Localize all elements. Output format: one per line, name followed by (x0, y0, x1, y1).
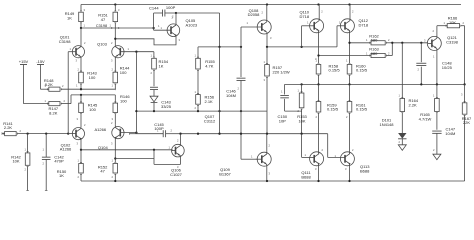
capacitor C148 (416, 43, 452, 85)
node bot4 (348, 180, 350, 182)
svg-text:Q103: Q103 (97, 41, 108, 46)
node out1 (300, 83, 302, 85)
node vas2 (153, 110, 155, 112)
svg-text:100P: 100P (166, 5, 176, 10)
resistor R151 (98, 5, 120, 39)
node Q110-em-tap (317, 54, 319, 56)
node Q102-R150 (80, 149, 82, 151)
resistor R158 (316, 59, 341, 85)
svg-text:Q121C3198: Q121C3198 (446, 35, 459, 44)
resistor R149 (65, 5, 86, 29)
transistor Q103 (97, 39, 136, 72)
resistor R165 (419, 84, 440, 129)
capacitor C147 (432, 127, 456, 155)
wire bottom -V rail (81, 180, 465, 182)
wire Q121 base line (392, 42, 428, 44)
wire Q109 base feed (241, 155, 257, 160)
node bias-col (218, 46, 220, 48)
node Q103-base (135, 51, 137, 53)
node out3 (348, 83, 350, 85)
power +15V (19, 59, 29, 103)
node bot2 (266, 180, 268, 182)
ground D101 (398, 145, 406, 151)
node C144-Q105 (175, 12, 177, 14)
resistor R161 (346, 84, 368, 152)
svg-text:C14333/25: C14333/25 (161, 100, 172, 109)
node rail-Q110 (317, 3, 319, 5)
transistor Q110 (300, 5, 324, 64)
transistor Q108 (241, 5, 272, 47)
diode D101 (379, 118, 406, 145)
node Q108-base-bias (240, 46, 242, 48)
resistor R152 (98, 159, 118, 182)
node mid3 (218, 133, 220, 135)
transistor Q104 (95, 121, 137, 162)
node out6 (436, 83, 438, 85)
node Q104-base (135, 131, 137, 133)
svg-text:Q109B1367: Q109B1367 (219, 167, 231, 176)
transistor Q109 (219, 134, 271, 181)
wire mid rail (181, 134, 345, 158)
node mid4 (240, 133, 242, 135)
wire Q102 collector line (81, 145, 173, 151)
node B (114, 38, 116, 40)
resistor R146 (112, 94, 131, 124)
node vas3 (197, 110, 199, 112)
resistor R143 (76, 68, 98, 90)
transistor Q101 (59, 28, 86, 72)
node out2 (317, 83, 319, 85)
resistor R164 (399, 84, 419, 133)
node rail-R151 (114, 3, 116, 5)
svg-text:R1412.2K: R1412.2K (3, 121, 13, 130)
power -15V (36, 59, 45, 89)
wire tail line (61, 88, 115, 90)
svg-text:C3198: C3198 (96, 24, 107, 28)
wire input riser (67, 52, 69, 134)
transistor Q112 (337, 5, 369, 64)
svg-text:Q108D2058: Q108D2058 (248, 8, 261, 17)
node mid2 (197, 133, 199, 135)
node input-R142 (26, 132, 28, 134)
node rail-Q112 (348, 3, 350, 5)
resistor R144 (112, 66, 131, 90)
node Q110-base (300, 46, 302, 48)
wire Q103 collector to Q105 emitter (115, 36, 176, 45)
node A (80, 27, 155, 29)
node input-C142 (45, 132, 47, 134)
input terminal (2, 132, 5, 135)
wire Q104 tap to Q106 emitter (115, 150, 180, 169)
node VAS-base (153, 149, 155, 151)
transistor Q102 (60, 123, 86, 152)
wire Q103 base tap to R154 (136, 52, 154, 58)
capacitor C145 (130, 122, 181, 137)
svg-text:Q113B688: Q113B688 (360, 164, 370, 173)
node input-base (67, 132, 69, 134)
wire top +V rail (81, 4, 461, 6)
capacitor C150 (278, 84, 302, 123)
resistor R162 (350, 33, 393, 45)
node out7 (463, 83, 465, 85)
svg-text:C146104M: C146104M (226, 89, 237, 98)
resistor R166 (437, 16, 465, 85)
svg-text:C145100P: C145100P (154, 122, 164, 131)
svg-text:Q102A1266: Q102A1266 (60, 142, 72, 151)
transistor Q113 (335, 148, 371, 181)
wire R164 column upper (401, 43, 403, 85)
wire R155 top link (198, 46, 241, 48)
transistor Q106 (169, 134, 185, 177)
node base-line2 (420, 42, 422, 44)
svg-text:R1478.2K: R1478.2K (49, 106, 59, 115)
wire collector bus C3198 (81, 24, 154, 29)
resistor R156 (195, 90, 215, 111)
resistor R141 (3, 121, 68, 136)
resistor R155 (195, 47, 216, 95)
node mid6 (300, 133, 302, 135)
resistor R145 (77, 95, 99, 128)
node out5 (420, 83, 422, 85)
svg-text:Q111B688: Q111B688 (301, 170, 311, 179)
resistor R160 (346, 59, 368, 85)
resistor R157 (264, 47, 290, 134)
wire C144 to bias column (176, 13, 220, 47)
wire driver to output bases (267, 46, 337, 48)
svg-text:R1654.7/1W: R1654.7/1W (419, 112, 432, 121)
capacitor C144 (149, 5, 176, 30)
svg-text:Q112D718: Q112D718 (359, 18, 369, 27)
node base-line1 (401, 42, 403, 44)
wire Q108 base column (240, 27, 242, 77)
svg-text:-15V: -15V (36, 59, 45, 64)
capacitor C143 electrolytic (150, 87, 172, 111)
resistor R163 (319, 43, 393, 58)
resistor R147 (24, 95, 116, 116)
node vas1 (135, 110, 137, 112)
transistor Q105 (154, 13, 198, 42)
node Q104-tap (114, 157, 116, 159)
svg-text:C147104M: C147104M (445, 127, 456, 136)
resistor R142 (11, 134, 30, 191)
svg-text:Q104: Q104 (98, 145, 109, 150)
transistor Q111 (301, 148, 323, 181)
node base-line0 (391, 42, 393, 44)
node rail-Q108 (266, 3, 268, 5)
node tail (80, 88, 82, 90)
wire VAS rail (136, 52, 267, 134)
svg-text:+15V: +15V (19, 59, 29, 64)
node bot3 (317, 180, 319, 182)
svg-text:C142470P: C142470P (54, 154, 64, 163)
node drv-junction (266, 46, 268, 48)
capacitor C142 (42, 134, 65, 191)
ground C147 (433, 154, 441, 160)
resistor R167 (461, 84, 472, 181)
wire bias column lower (219, 47, 221, 134)
node R145-top (80, 94, 82, 96)
resistor R148 (41, 78, 65, 91)
wire output node line (285, 83, 465, 85)
wire Q111 base feed (302, 134, 314, 158)
transistor Q121 (424, 26, 459, 85)
node bot1 (114, 180, 116, 182)
svg-text:A1266: A1266 (95, 127, 107, 132)
svg-text:Q101C3198: Q101C3198 (59, 35, 72, 44)
svg-text:C144: C144 (149, 5, 159, 10)
node mid1 (179, 133, 181, 135)
resistor R154 (151, 54, 169, 87)
resistor R153 (297, 84, 307, 133)
label Q107 (204, 114, 216, 123)
svg-text:Q110D718: Q110D718 (300, 10, 310, 19)
svg-text:Q107C3112: Q107C3112 (204, 114, 216, 123)
node vas5 (240, 110, 242, 112)
svg-text:Q106C1027: Q106C1027 (170, 168, 183, 177)
resistor R150 (57, 150, 84, 181)
node Q112-em-tap (348, 42, 350, 44)
node vas4 (218, 110, 220, 112)
resistor R159 (316, 84, 339, 152)
node mid5 (266, 133, 268, 135)
svg-text:C14810/25: C14810/25 (442, 61, 453, 70)
capacitor C146 (226, 78, 246, 159)
